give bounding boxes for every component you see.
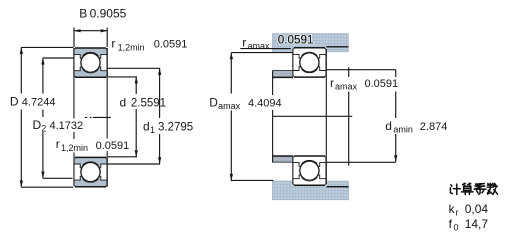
- svg-text:r: r: [330, 76, 334, 90]
- svg-text:D: D: [33, 118, 42, 132]
- svg-text:amin: amin: [393, 125, 413, 135]
- svg-text:0.0591: 0.0591: [96, 140, 130, 152]
- svg-text:amax: amax: [335, 82, 358, 92]
- svg-text:2: 2: [41, 124, 46, 134]
- svg-text:0.0591: 0.0591: [154, 39, 188, 51]
- svg-text:4.7244: 4.7244: [22, 97, 56, 109]
- svg-text:r: r: [111, 37, 115, 51]
- svg-text:3.2795: 3.2795: [158, 122, 193, 134]
- svg-text:d: d: [385, 119, 392, 133]
- svg-text:0.0591: 0.0591: [365, 78, 399, 90]
- svg-text:14,7: 14,7: [465, 217, 489, 231]
- svg-text:D: D: [209, 95, 218, 109]
- svg-text:1: 1: [150, 125, 155, 135]
- svg-text:2.874: 2.874: [420, 121, 448, 133]
- svg-text:4.4094: 4.4094: [248, 97, 282, 109]
- svg-text:amax: amax: [218, 101, 241, 111]
- svg-text:2.5591: 2.5591: [131, 98, 166, 110]
- svg-text:amax: amax: [248, 41, 271, 51]
- svg-text:B: B: [79, 7, 87, 21]
- svg-text:0.9055: 0.9055: [90, 7, 127, 21]
- svg-text:0,04: 0,04: [465, 202, 489, 216]
- svg-text:d: d: [120, 96, 127, 110]
- svg-text:r: r: [456, 208, 459, 218]
- svg-text:1,2min: 1,2min: [118, 43, 145, 53]
- svg-text:d: d: [143, 120, 150, 134]
- svg-text:D: D: [10, 95, 19, 109]
- svg-text:1,2min: 1,2min: [61, 143, 88, 153]
- svg-text:0.0591: 0.0591: [278, 33, 314, 46]
- svg-text:0: 0: [454, 222, 459, 232]
- svg-text:4.1732: 4.1732: [50, 120, 84, 132]
- svg-text:r: r: [56, 137, 60, 151]
- svg-text:r: r: [242, 36, 246, 50]
